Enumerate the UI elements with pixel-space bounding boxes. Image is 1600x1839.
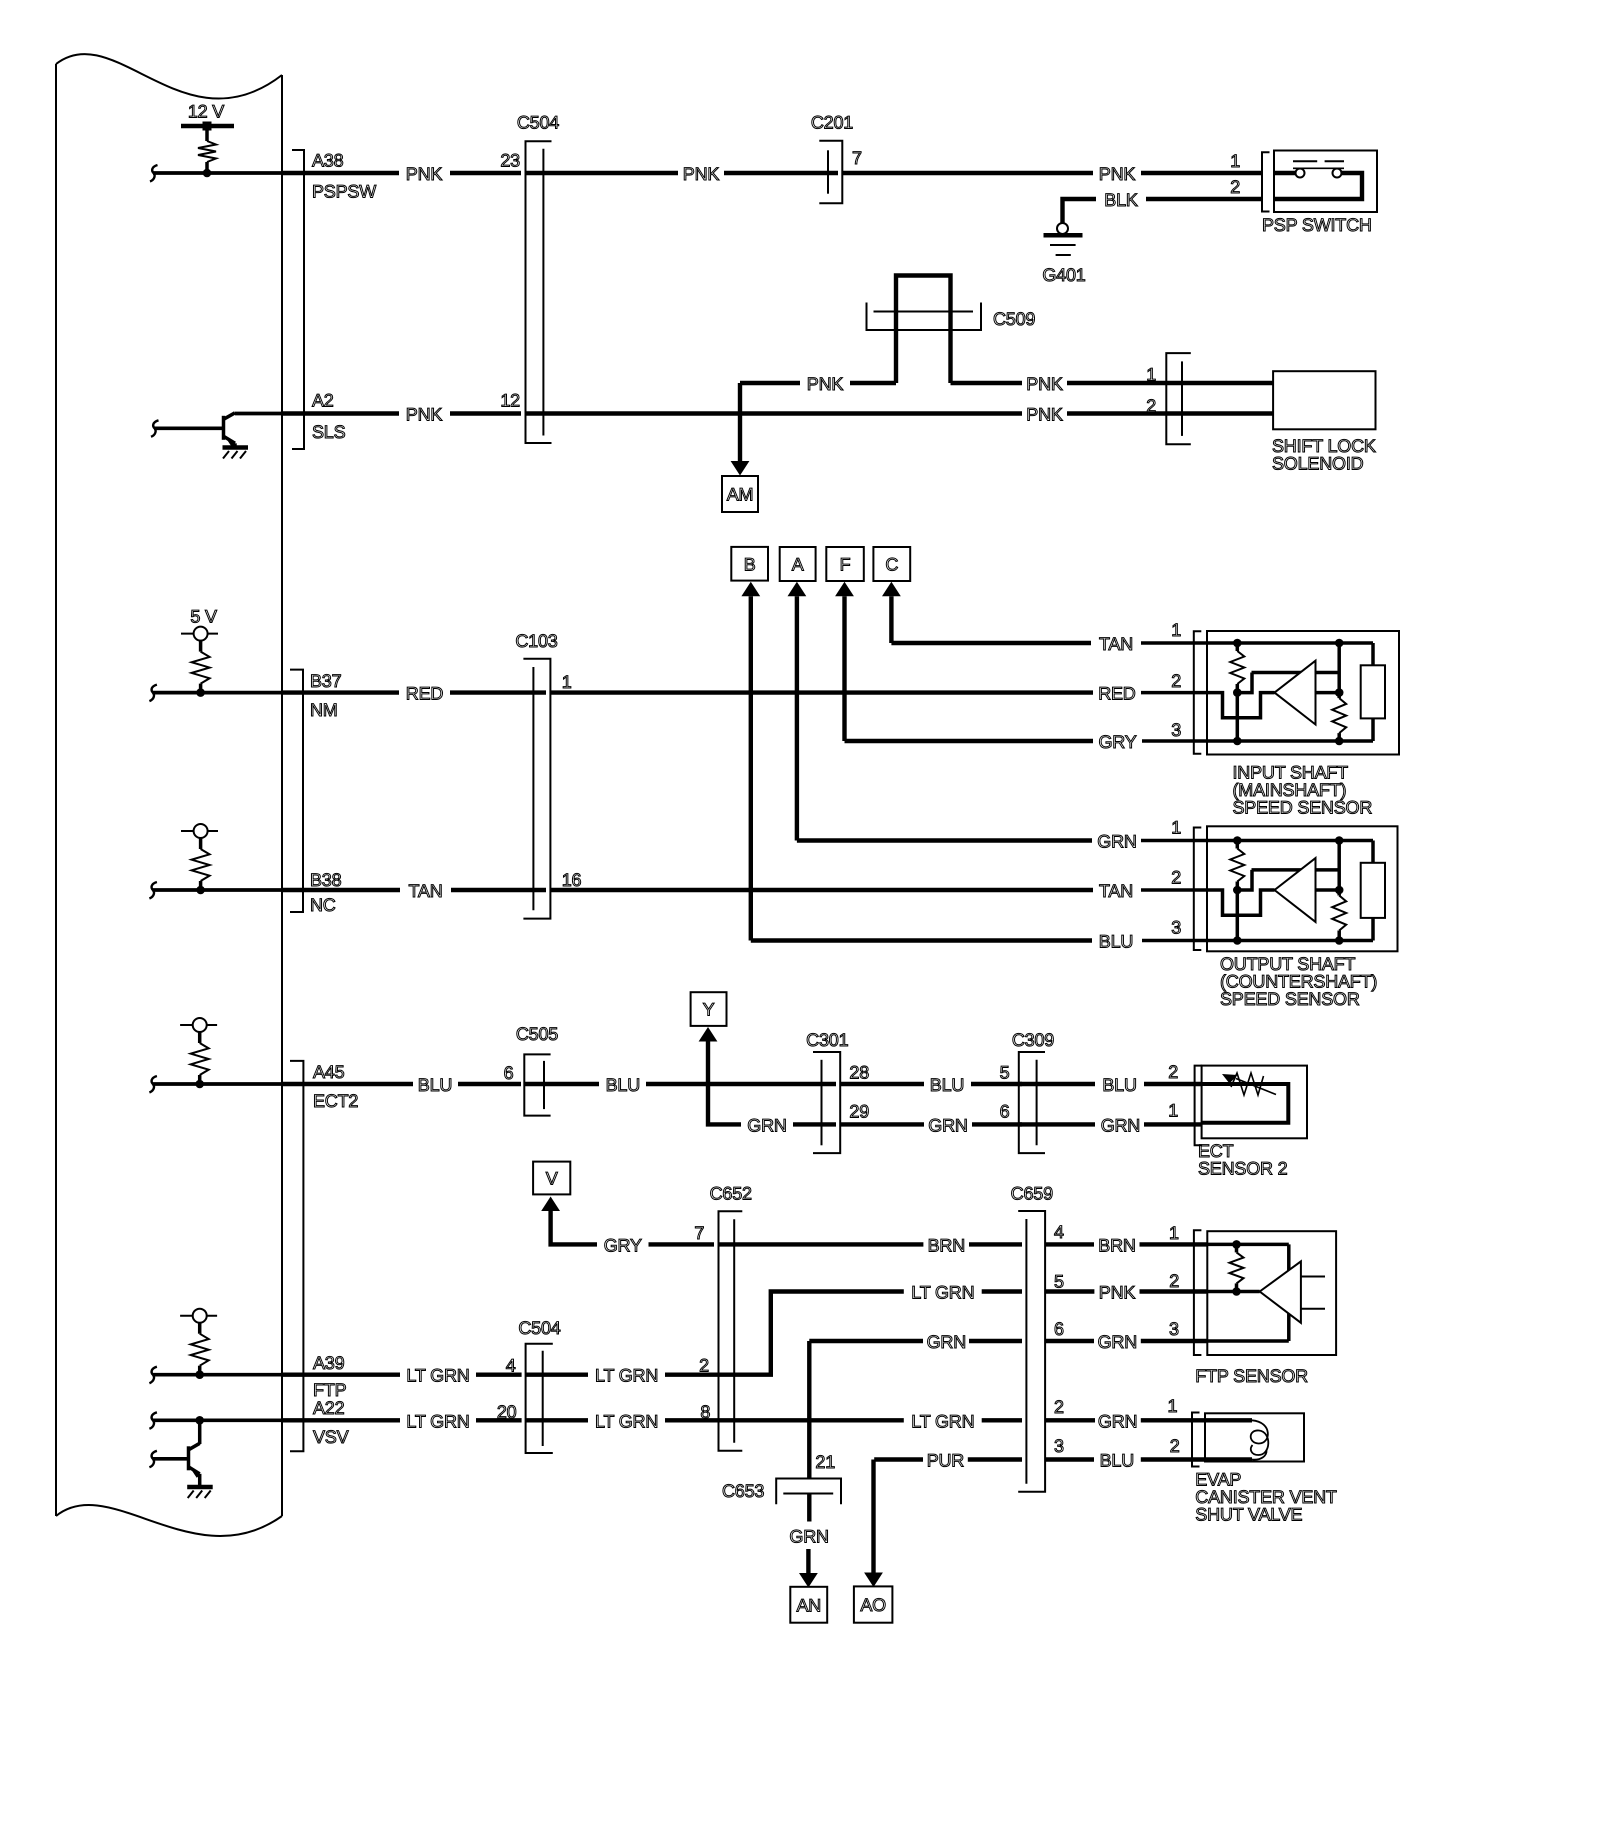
- wire RED C103 to input speed sensor pin 2: [550, 690, 1093, 694]
- input speed sensor internals: [1141, 641, 1373, 645]
- svg-text:C505: C505: [516, 1024, 558, 1044]
- svg-text:C659: C659: [1011, 1184, 1053, 1204]
- svg-text:GRN: GRN: [1097, 832, 1136, 852]
- svg-text:B: B: [744, 554, 756, 574]
- transistor Q1 (SLS driver): [151, 420, 159, 437]
- svg-text:3: 3: [1171, 720, 1181, 740]
- node A38 junction: [203, 169, 212, 178]
- svg-text:1: 1: [1168, 1101, 1178, 1121]
- svg-text:Y: Y: [703, 1000, 715, 1020]
- svg-text:PNK: PNK: [406, 164, 443, 184]
- svg-text:LT GRN: LT GRN: [911, 1283, 974, 1303]
- 5 V supply (FTP pull-up): [180, 1315, 217, 1317]
- ECM/PCM body outline (torn box): [55, 64, 57, 1516]
- wire GRN C659 to FTP sensor pin 3: [1045, 1339, 1094, 1343]
- svg-text:G401: G401: [1042, 265, 1085, 285]
- svg-text:29: 29: [849, 1101, 869, 1121]
- svg-text:2: 2: [1171, 671, 1181, 691]
- wire PNK C201 to PSP switch pin 1: [842, 171, 1093, 175]
- arrow wire to V: [548, 1211, 552, 1212]
- svg-text:LT GRN: LT GRN: [595, 1366, 658, 1386]
- svg-text:7: 7: [852, 148, 862, 168]
- svg-text:RED: RED: [1098, 684, 1136, 704]
- ECT sensor 2 body: [1202, 1066, 1307, 1139]
- wire BLU C659 to EVAP valve pin 2: [1045, 1457, 1094, 1461]
- svg-text:C652: C652: [710, 1184, 752, 1204]
- wire BLU to output sensor pin 3: [751, 938, 1092, 942]
- svg-text:16: 16: [562, 870, 582, 890]
- svg-text:LT GRN: LT GRN: [406, 1411, 469, 1431]
- svg-text:PNK: PNK: [807, 374, 844, 394]
- svg-text:PSPSW: PSPSW: [312, 182, 376, 202]
- wire LT GRN C504 to C652 pin 2: [526, 1372, 588, 1376]
- arrow to AN (page link): [806, 1549, 810, 1573]
- svg-text:LT GRN: LT GRN: [406, 1366, 469, 1386]
- svg-text:2: 2: [1169, 1271, 1179, 1291]
- svg-text:SHUT VALVE: SHUT VALVE: [1195, 1505, 1302, 1525]
- output speed sensor U2 body: [1207, 826, 1398, 951]
- wire ECT2 inside ECM: [149, 1076, 157, 1093]
- svg-text:1: 1: [562, 672, 572, 692]
- input speed sensor U1 body: [1207, 631, 1399, 755]
- svg-text:GRN: GRN: [1098, 1411, 1137, 1431]
- arrow wire to A (GRN): [795, 596, 799, 840]
- wire PNK branch via C509: [740, 381, 800, 385]
- connector C509 jumper loop: [896, 276, 951, 384]
- svg-text:PNK: PNK: [1026, 405, 1063, 425]
- wire PNK C504 to shift lock solenoid pin 2: [526, 411, 1023, 415]
- arrow wire to F (GRY): [842, 596, 846, 741]
- wire NC inside ECM: [149, 882, 157, 899]
- svg-text:6: 6: [1000, 1101, 1010, 1121]
- svg-text:GRY: GRY: [1098, 732, 1136, 752]
- svg-text:PNK: PNK: [1099, 1283, 1136, 1303]
- ECM pin bracket A45/A39/A22: [290, 1061, 303, 1451]
- svg-text:1: 1: [1230, 151, 1240, 171]
- wire GRN C301 to C309 pin 6: [840, 1122, 924, 1126]
- svg-text:1: 1: [1171, 818, 1181, 838]
- svg-text:6: 6: [504, 1063, 514, 1083]
- svg-text:2: 2: [1171, 868, 1181, 888]
- svg-text:GRN: GRN: [747, 1115, 786, 1135]
- PSP switch body: [1274, 151, 1377, 213]
- svg-text:1: 1: [1146, 365, 1156, 385]
- svg-text:C103: C103: [515, 631, 557, 651]
- svg-text:1: 1: [1169, 1223, 1179, 1243]
- svg-text:SOLENOID: SOLENOID: [1272, 453, 1364, 473]
- wire GRY to input sensor pin 3: [845, 739, 1094, 743]
- svg-text:A38: A38: [312, 151, 344, 171]
- svg-text:PNK: PNK: [683, 164, 720, 184]
- svg-text:C504: C504: [518, 1318, 560, 1338]
- wire NM inside ECM: [149, 685, 157, 702]
- wire B38 TAN to C103 pin 16: [282, 888, 400, 892]
- svg-text:5: 5: [1054, 1271, 1064, 1291]
- svg-text:5 V: 5 V: [190, 607, 217, 627]
- 5 V supply (ECT2 pull-up): [180, 1024, 217, 1026]
- shift lock solenoid body: [1273, 371, 1375, 429]
- svg-text:3: 3: [1169, 1319, 1179, 1339]
- svg-text:A45: A45: [313, 1062, 345, 1082]
- wire SLS inside ECM: [235, 412, 282, 416]
- arrow to AO (page link): [871, 1460, 875, 1573]
- svg-text:BLU: BLU: [418, 1075, 452, 1095]
- svg-text:12: 12: [500, 391, 520, 411]
- ECM pin bracket B37/B38: [290, 670, 303, 912]
- svg-text:SPEED SENSOR: SPEED SENSOR: [1220, 989, 1360, 1009]
- svg-text:A22: A22: [313, 1398, 345, 1418]
- wire GRN to C659 pin 6: [809, 1339, 923, 1343]
- svg-text:4: 4: [1054, 1222, 1064, 1242]
- FTP sensor internals: [1207, 1243, 1289, 1247]
- svg-text:1: 1: [1171, 620, 1181, 640]
- node A22 junction: [195, 1416, 204, 1425]
- arrow to AM (page link): [738, 383, 742, 461]
- wire GRN C659 to EVAP valve pin 1: [1045, 1418, 1095, 1422]
- svg-text:A2: A2: [312, 391, 334, 411]
- svg-text:A: A: [792, 555, 804, 575]
- wire FTP inside ECM: [149, 1367, 157, 1384]
- svg-text:FTP: FTP: [313, 1380, 347, 1400]
- svg-text:BLK: BLK: [1104, 190, 1138, 210]
- svg-text:GRY: GRY: [604, 1235, 642, 1255]
- svg-text:BLU: BLU: [1102, 1075, 1136, 1095]
- svg-text:BLU: BLU: [1099, 932, 1133, 952]
- EVAP canister vent shut valve body: [1205, 1413, 1304, 1461]
- svg-text:RED: RED: [406, 684, 444, 704]
- wire GRN to Y link: [708, 1042, 741, 1124]
- ECT sensor 2 thermistor: [1202, 1084, 1289, 1123]
- svg-text:2: 2: [1168, 1062, 1178, 1082]
- wire GRN branch to C653/AN: [807, 1341, 811, 1479]
- svg-text:A39: A39: [313, 1353, 345, 1373]
- svg-text:GRN: GRN: [927, 1332, 966, 1352]
- resistor (12 V pull-up): [198, 141, 216, 162]
- wire BLU C301 to C309 pin 5: [840, 1082, 924, 1086]
- wire PNK C504 to C201: [526, 171, 679, 175]
- ground G401: [1057, 223, 1068, 234]
- svg-text:C201: C201: [811, 113, 853, 133]
- svg-text:PNK: PNK: [406, 405, 443, 425]
- svg-text:SPEED SENSOR: SPEED SENSOR: [1233, 798, 1373, 818]
- svg-text:2: 2: [1170, 1436, 1180, 1456]
- wire PNK C509 to solenoid pin 1: [951, 381, 1023, 385]
- wire A38 PNK to C504: [282, 171, 399, 175]
- wire GRN C309 to ECT sensor 2 pin 1: [1019, 1122, 1095, 1126]
- svg-text:GRN: GRN: [1098, 1332, 1137, 1352]
- PSP switch connector bracket: [1262, 152, 1270, 211]
- svg-text:C504: C504: [517, 113, 559, 133]
- wire VSV inside ECM: [149, 1412, 157, 1429]
- wire PSPSW inside ECM: [150, 165, 158, 182]
- arrow wire to B (BLU): [749, 596, 753, 940]
- arrow wire to Y: [706, 1039, 710, 1044]
- wire TAN C103 to output speed sensor pin 2: [550, 888, 1093, 892]
- svg-text:VSV: VSV: [313, 1427, 349, 1447]
- svg-text:AO: AO: [860, 1595, 886, 1615]
- svg-text:GRN: GRN: [928, 1115, 967, 1135]
- svg-text:F: F: [840, 555, 851, 575]
- svg-text:28: 28: [849, 1063, 869, 1083]
- svg-text:BLU: BLU: [930, 1075, 964, 1095]
- svg-text:B38: B38: [310, 870, 342, 890]
- wire GRY to C652 pin 7: [551, 1212, 597, 1244]
- svg-text:2: 2: [699, 1355, 709, 1375]
- svg-text:BLU: BLU: [1100, 1451, 1134, 1471]
- svg-text:PNK: PNK: [1099, 164, 1136, 184]
- wire BRN C659 to FTP sensor pin 1: [1045, 1242, 1094, 1246]
- svg-text:BRN: BRN: [928, 1235, 965, 1255]
- svg-text:NM: NM: [310, 700, 338, 720]
- svg-text:TAN: TAN: [408, 881, 442, 901]
- output speed sensor internals: [1141, 839, 1373, 843]
- svg-text:PUR: PUR: [927, 1451, 965, 1471]
- wire A39 LT GRN to C504 pin 4: [282, 1372, 400, 1376]
- wire GRN to output sensor pin 1: [797, 838, 1092, 842]
- svg-text:BRN: BRN: [1098, 1235, 1135, 1255]
- svg-text:TAN: TAN: [1099, 634, 1133, 654]
- EVAP valve solenoid coil: [1205, 1418, 1252, 1422]
- svg-text:4: 4: [506, 1355, 516, 1375]
- svg-text:TAN: TAN: [1099, 881, 1133, 901]
- svg-text:2: 2: [1054, 1397, 1064, 1417]
- svg-text:LT GRN: LT GRN: [595, 1411, 658, 1431]
- svg-text:GRN: GRN: [789, 1526, 828, 1546]
- svg-text:C301: C301: [806, 1030, 848, 1050]
- wire BRN C652 to C659 pin 4: [719, 1242, 924, 1246]
- wire B37 RED to C103 pin 1: [282, 690, 399, 694]
- svg-text:BLU: BLU: [606, 1075, 640, 1095]
- svg-text:PSP SWITCH: PSP SWITCH: [1262, 215, 1372, 235]
- wire A22 LT GRN to C504 pin 20: [282, 1418, 400, 1422]
- PSP switch contacts: [1274, 171, 1296, 175]
- svg-text:3: 3: [1054, 1436, 1064, 1456]
- svg-text:5: 5: [1000, 1063, 1010, 1083]
- svg-text:AN: AN: [796, 1595, 821, 1615]
- svg-text:NC: NC: [310, 895, 336, 915]
- 5 V supply (NC pull-up): [181, 830, 218, 832]
- transistor Q2 (VSV driver): [149, 1451, 157, 1468]
- svg-text:FTP SENSOR: FTP SENSOR: [1195, 1366, 1308, 1386]
- wire A2 PNK to C504 pin 12: [282, 411, 399, 415]
- wire LT GRN C504 to C652 pin 8: [526, 1418, 588, 1422]
- page link V: [533, 1162, 570, 1195]
- svg-text:C309: C309: [1012, 1030, 1054, 1050]
- wire BLU C309 to ECT sensor 2 pin 2: [1019, 1082, 1095, 1086]
- svg-text:B37: B37: [310, 671, 342, 691]
- wire LT GRN C652 pin 2 up to C659 pin 5: [719, 1292, 904, 1375]
- arrow wire to C (TAN): [889, 596, 893, 643]
- wire A45 BLU to C505: [282, 1082, 413, 1086]
- svg-text:3: 3: [1171, 918, 1181, 938]
- page link boxes B A F C: [731, 547, 768, 581]
- svg-text:LT GRN: LT GRN: [911, 1411, 974, 1431]
- svg-text:PNK: PNK: [1026, 374, 1063, 394]
- svg-text:7: 7: [694, 1223, 704, 1243]
- wire PNK C659 to FTP sensor pin 2: [1045, 1289, 1094, 1293]
- svg-text:23: 23: [500, 151, 520, 171]
- FTP sensor body: [1207, 1231, 1336, 1355]
- wire TAN to input sensor pin 1: [891, 641, 1091, 645]
- svg-text:GRN: GRN: [1101, 1115, 1140, 1135]
- svg-text:C509: C509: [993, 309, 1035, 329]
- svg-text:SENSOR 2: SENSOR 2: [1198, 1159, 1288, 1179]
- svg-text:V: V: [546, 1169, 558, 1189]
- svg-text:21: 21: [815, 1452, 835, 1472]
- wire PUR C659 pin 3 to AO: [874, 1457, 923, 1461]
- page link Y: [691, 992, 727, 1026]
- ECM pin bracket A38/A2: [292, 150, 304, 449]
- svg-text:12 V: 12 V: [188, 102, 224, 122]
- svg-text:2: 2: [1146, 396, 1156, 416]
- svg-text:C653: C653: [722, 1481, 764, 1501]
- svg-text:1: 1: [1167, 1396, 1177, 1416]
- svg-text:AM: AM: [727, 485, 754, 505]
- wire LT GRN C652 to C659 pin 2: [719, 1418, 904, 1422]
- svg-text:SLS: SLS: [312, 422, 346, 442]
- wire BLU C505 to C301 pin 28: [524, 1082, 599, 1086]
- svg-text:6: 6: [1054, 1319, 1064, 1339]
- svg-text:ECT2: ECT2: [313, 1091, 358, 1111]
- svg-text:2: 2: [1230, 177, 1240, 197]
- svg-text:C: C: [885, 555, 898, 575]
